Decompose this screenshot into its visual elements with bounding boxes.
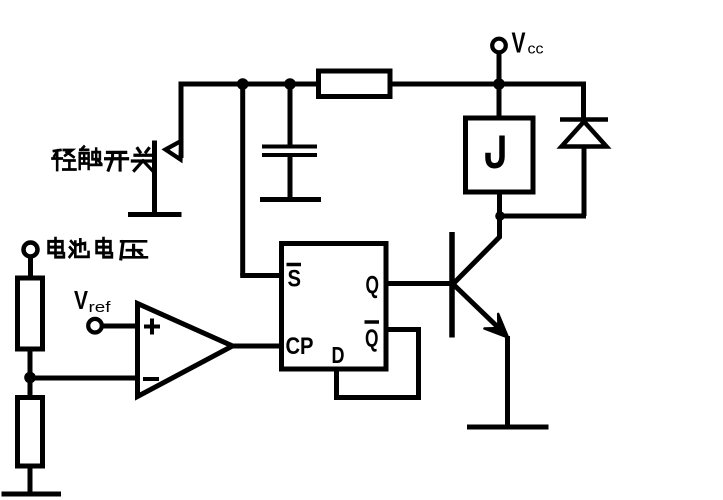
transistor Q1 emitter arrow [484, 314, 508, 338]
diode D1 cathode bar [560, 117, 608, 122]
触 [80, 147, 102, 169]
capacitor C1 [262, 147, 317, 156]
压 [121, 241, 147, 259]
wire Q output to base [386, 281, 450, 286]
wire right corner down to diode [581, 82, 586, 122]
switch movable contact arrow [166, 141, 182, 160]
ground (switch) [128, 212, 182, 217]
wire divider to ground [28, 466, 33, 494]
transistor Q1 base bar [449, 232, 455, 338]
svg-text:S: S [288, 266, 302, 293]
wire diode bottom [582, 147, 587, 217]
svg-text:D: D [332, 342, 345, 368]
terminal Vref [88, 319, 102, 333]
terminal battery input [24, 243, 38, 257]
ground (emitter) [467, 425, 549, 430]
resistor R2 (divider top) [18, 278, 43, 349]
svg-text:cc: cc [528, 41, 545, 58]
池 [70, 239, 89, 256]
svg-text:Q: Q [365, 325, 379, 353]
relay J box [466, 118, 534, 192]
op-amp minus sign [143, 377, 159, 381]
svg-text:V: V [74, 285, 89, 315]
wire to S input (stub) [240, 273, 282, 278]
wire op-amp output to CP [230, 344, 282, 349]
电 [49, 238, 64, 257]
开 [106, 152, 128, 170]
wire between divider resistors [28, 349, 33, 398]
label 轻触开关 [52, 147, 153, 171]
node S-wire junction dot [237, 78, 249, 90]
node relay/diode/collector junction dot [495, 211, 505, 221]
node capacitor junction dot [284, 78, 296, 90]
wire left drop to switch arrow [179, 82, 184, 159]
wire Q-bar to D feedback loop [337, 330, 419, 398]
关 [132, 149, 154, 171]
wire battery to divider [28, 256, 33, 278]
svg-text:V: V [512, 28, 526, 60]
terminal Vcc [492, 39, 506, 53]
ground (divider) [2, 492, 62, 497]
wire Vref to non-inverting input [102, 324, 140, 329]
op-amp plus sign [144, 319, 160, 335]
transistor Q1 collector lead [454, 237, 500, 284]
轻 [52, 150, 75, 170]
op-amp U1 [138, 304, 233, 397]
transistor Q1 emitter lead [454, 285, 506, 335]
wire emitter down [505, 336, 510, 427]
diode D1 triangle [562, 122, 607, 147]
wire capacitor bottom [288, 155, 293, 200]
wire relay bottom [497, 192, 502, 239]
resistor R3 (divider bottom) [18, 398, 43, 467]
svg-text:ref: ref [89, 299, 112, 316]
wire capacitor top [288, 84, 293, 147]
svg-text:Q: Q [366, 272, 380, 300]
wire diode to relay node [499, 214, 586, 219]
电 [97, 238, 112, 257]
resistor R1 (top) [319, 71, 391, 97]
svg-text:CP: CP [286, 333, 314, 360]
wire to S input (vertical) [240, 84, 245, 276]
wire Vcc drop [497, 52, 502, 118]
switch pole [152, 141, 157, 216]
label J [488, 136, 502, 166]
wire top horizontal rail [181, 82, 584, 87]
ground (capacitor) [260, 197, 321, 202]
wire divider tap to inverting input [30, 376, 140, 381]
flip-flop U2 box [282, 244, 387, 370]
label 电池电压 [49, 238, 147, 259]
node divider tap dot [24, 372, 36, 384]
node Vcc junction dot [493, 78, 505, 90]
